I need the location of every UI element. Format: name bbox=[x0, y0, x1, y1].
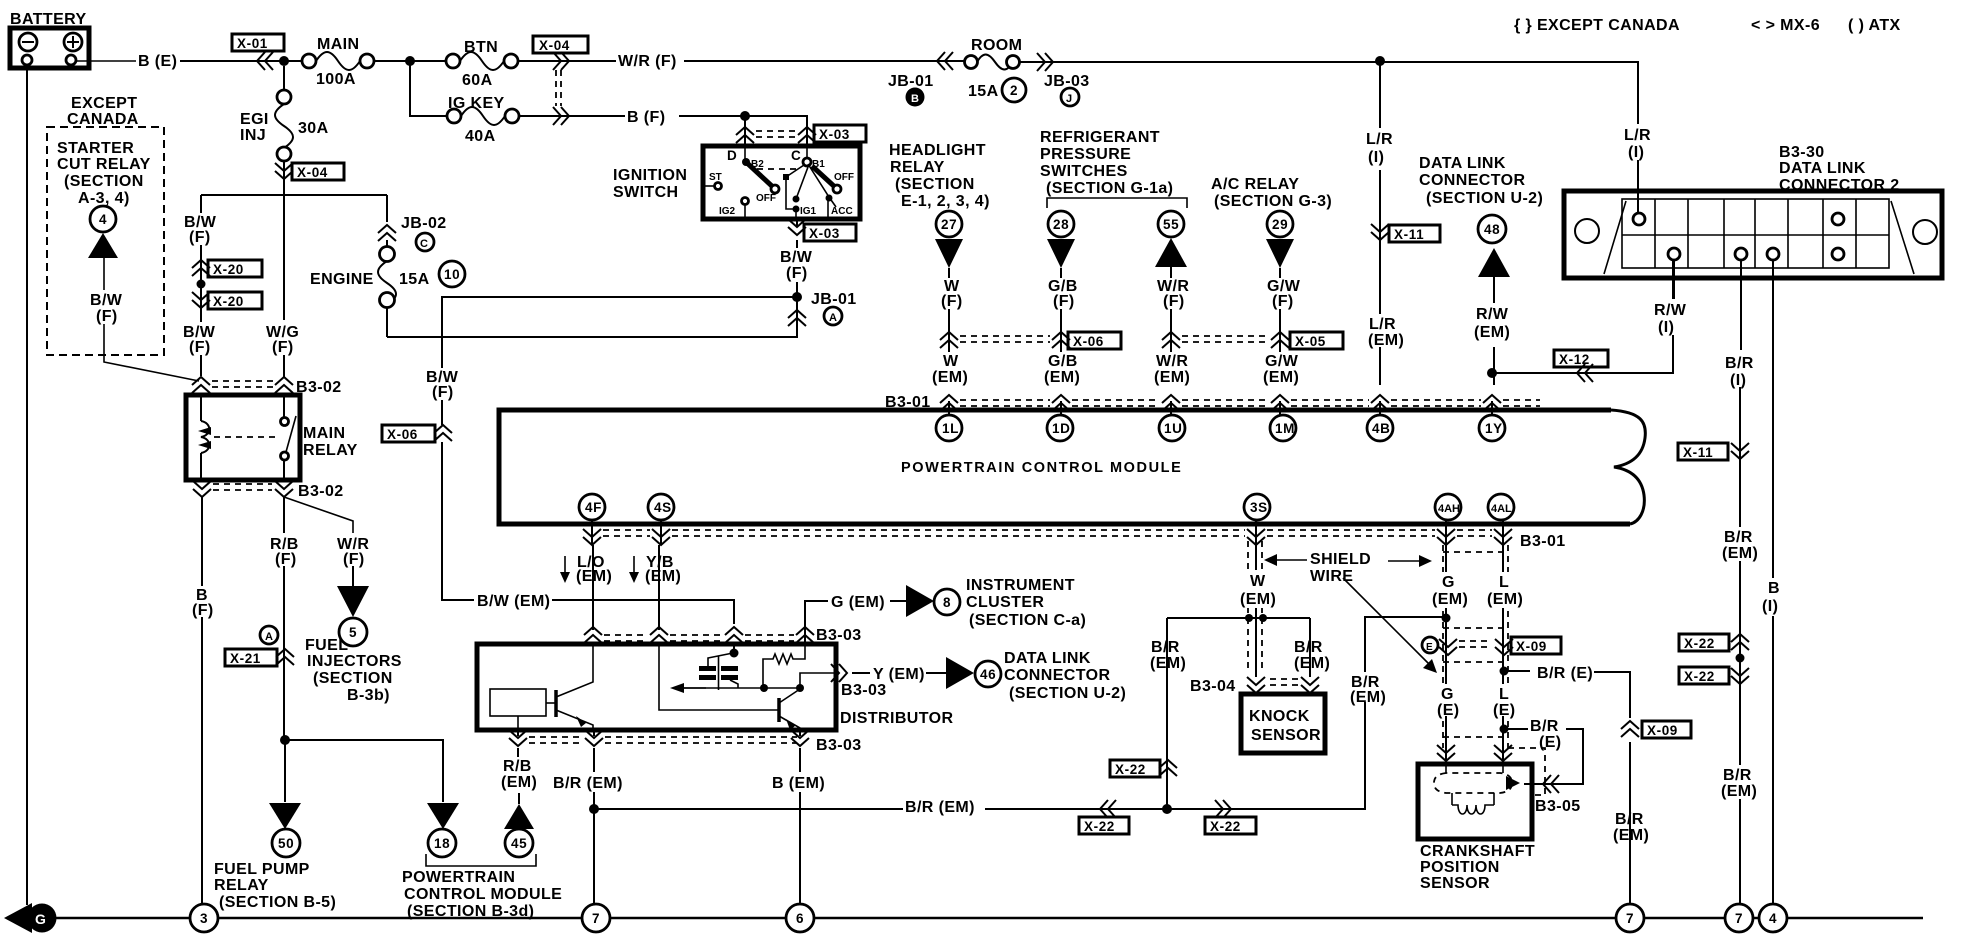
svg-text:40A: 40A bbox=[465, 128, 496, 145]
svg-text:ST: ST bbox=[709, 172, 722, 183]
svg-text:28: 28 bbox=[1053, 217, 1069, 232]
svg-text:(SECTION: (SECTION bbox=[64, 173, 144, 190]
svg-text:INSTRUMENT: INSTRUMENT bbox=[966, 577, 1075, 594]
svg-text:6: 6 bbox=[796, 911, 804, 926]
wire JB-01 left to B/W column bbox=[442, 297, 797, 425]
connector X-09 right bbox=[1621, 721, 1691, 738]
svg-text:B3-01: B3-01 bbox=[1520, 533, 1566, 550]
svg-text:(EM): (EM) bbox=[1240, 591, 1276, 608]
wire battery negative down bbox=[26, 68, 28, 905]
svg-text:B (F): B (F) bbox=[627, 109, 665, 126]
svg-text:(EM): (EM) bbox=[1432, 591, 1468, 608]
annotation arrow L/O bbox=[564, 556, 566, 578]
svg-text:B/W: B/W bbox=[780, 249, 813, 266]
svg-text:G/B: G/B bbox=[1048, 353, 1078, 370]
fuse MAIN 100A bbox=[302, 36, 374, 88]
wire pins into PCM top bbox=[949, 401, 1492, 415]
svg-text:JB-01: JB-01 bbox=[888, 73, 934, 90]
pin 4S bbox=[648, 494, 674, 520]
connector B3-03 top bus bbox=[584, 627, 862, 644]
svg-text:(I): (I) bbox=[1762, 598, 1778, 615]
wire 4S to distributor bbox=[658, 545, 660, 630]
fuse IG KEY 40A bbox=[447, 95, 519, 145]
svg-text:B-3b): B-3b) bbox=[347, 687, 390, 704]
svg-text:X-11: X-11 bbox=[1683, 445, 1713, 460]
svg-text:(EM): (EM) bbox=[1487, 591, 1523, 608]
svg-text:18: 18 bbox=[434, 836, 450, 851]
node B/R (EM) right low bbox=[1613, 811, 1649, 844]
label FUEL PUMP RELAY bbox=[214, 861, 336, 911]
terminal E circle bbox=[1422, 637, 1438, 653]
wire B (F) to bus bbox=[201, 617, 203, 904]
label HEADLIGHT RELAY bbox=[889, 142, 990, 210]
svg-text:(EM): (EM) bbox=[501, 774, 537, 791]
junction dots knock W bbox=[1245, 614, 1253, 622]
wire starter cut down bbox=[103, 258, 105, 290]
svg-text:(I): (I) bbox=[1730, 372, 1746, 389]
node Y (EM) bbox=[852, 672, 870, 674]
svg-text:50: 50 bbox=[278, 836, 294, 851]
connector X-06 bbox=[382, 425, 452, 442]
node L/R (I) top right bbox=[1622, 124, 1658, 161]
wire B/R (E) to right chain bbox=[1504, 671, 1630, 718]
connector X-03 bottom bbox=[788, 219, 856, 241]
svg-text:5: 5 bbox=[349, 625, 357, 640]
label CRANKSHAFT POSITION SENSOR bbox=[1420, 843, 1535, 892]
svg-text:29: 29 bbox=[1272, 217, 1288, 232]
svg-text:{ } EXCEPT CANADA: { } EXCEPT CANADA bbox=[1514, 17, 1680, 34]
svg-text:A/C RELAY: A/C RELAY bbox=[1211, 176, 1299, 193]
svg-text:CLUSTER: CLUSTER bbox=[966, 594, 1044, 611]
junction dot G wire bbox=[1442, 614, 1451, 623]
svg-text:(I): (I) bbox=[1628, 144, 1644, 161]
svg-text:(SECTION C-a): (SECTION C-a) bbox=[969, 612, 1086, 629]
wire R/B (EM) from distributor bbox=[517, 730, 519, 736]
svg-text:(EM): (EM) bbox=[1368, 332, 1404, 349]
terminal 8 bbox=[934, 589, 960, 615]
shield dashed box 3S bbox=[1248, 541, 1262, 668]
pin 4AL bbox=[1488, 494, 1514, 520]
terminal 4 bbox=[90, 206, 116, 232]
svg-text:2: 2 bbox=[1010, 83, 1018, 98]
junction dots distributor bbox=[760, 684, 768, 692]
chevron X-04 lower bbox=[553, 107, 569, 125]
svg-text:8: 8 bbox=[943, 595, 951, 610]
svg-text:X-03: X-03 bbox=[819, 127, 850, 142]
svg-text:(SECTION: (SECTION bbox=[313, 670, 393, 687]
svg-text:(SECTION U-2): (SECTION U-2) bbox=[1009, 685, 1126, 702]
connector X-05 dashed row bbox=[1162, 332, 1343, 349]
wire ignition to JB-01 bbox=[796, 219, 798, 297]
wire 3S shield W down bbox=[1255, 545, 1257, 677]
svg-text:B/W: B/W bbox=[90, 292, 123, 309]
connector B3-03 bottom bus bbox=[509, 730, 862, 754]
connector X-22 right upper bbox=[1679, 634, 1749, 651]
crankshaft sensor internals bbox=[1434, 764, 1520, 814]
DLC2 pin B bbox=[1767, 248, 1779, 260]
fuse ENGINE 15A bbox=[310, 240, 465, 337]
svg-text:B3-04: B3-04 bbox=[1190, 678, 1236, 695]
svg-text:W: W bbox=[943, 353, 959, 370]
svg-text:(E): (E) bbox=[1539, 734, 1562, 751]
svg-text:INJ: INJ bbox=[240, 127, 266, 144]
wire 4F to distributor bbox=[592, 545, 594, 630]
pin 1L bbox=[936, 415, 962, 441]
wire W/G column bbox=[283, 188, 285, 320]
svg-text:X-22: X-22 bbox=[1684, 669, 1715, 684]
svg-text:X-09: X-09 bbox=[1516, 639, 1547, 654]
wire R/W (I) pin bbox=[1673, 260, 1675, 299]
svg-text:B: B bbox=[1768, 580, 1780, 597]
connector X-11 top bbox=[1371, 224, 1440, 242]
connector X-22 right lower bbox=[1679, 667, 1749, 684]
wire G/W column bbox=[1279, 268, 1281, 385]
svg-text:4: 4 bbox=[99, 212, 107, 227]
wire knock right branch bbox=[1309, 618, 1311, 677]
svg-text:B/R: B/R bbox=[1530, 718, 1559, 735]
svg-text:X-22: X-22 bbox=[1210, 819, 1241, 834]
svg-text:CANADA: CANADA bbox=[67, 111, 139, 128]
svg-text:(I): (I) bbox=[1658, 319, 1674, 336]
junction dot bbox=[279, 56, 289, 66]
svg-text:(EM): (EM) bbox=[1294, 655, 1330, 672]
connector X-11 right bbox=[1678, 443, 1749, 460]
connector X-06 dashed row bbox=[940, 332, 1121, 349]
DLC2 connector body bbox=[1564, 191, 1942, 278]
svg-text:X-03: X-03 bbox=[809, 226, 840, 241]
wire B/W (EM) to distributor bbox=[552, 600, 734, 624]
fuse EGI INJ 30A bbox=[240, 66, 329, 161]
svg-text:FUEL PUMP: FUEL PUMP bbox=[214, 861, 310, 878]
svg-text:B: B bbox=[911, 93, 919, 105]
knock sensor box bbox=[1241, 694, 1325, 753]
svg-text:B/R: B/R bbox=[1151, 639, 1180, 656]
distributor transistor left bbox=[556, 644, 593, 730]
svg-text:(SECTION B-5): (SECTION B-5) bbox=[219, 894, 336, 911]
junction dot B/R bbox=[589, 804, 599, 814]
arrow refrigerant sw 55 up bbox=[1155, 238, 1187, 267]
svg-text:(SECTION: (SECTION bbox=[895, 176, 975, 193]
svg-text:JB-02: JB-02 bbox=[401, 215, 447, 232]
svg-text:RELAY: RELAY bbox=[890, 159, 945, 176]
DLC2 pin R/W bbox=[1668, 248, 1680, 260]
connector X-03 top bbox=[736, 125, 866, 143]
svg-text:(EM): (EM) bbox=[1154, 369, 1190, 386]
wire B(F) to ignition switch bbox=[679, 116, 807, 146]
wire knock left branch bbox=[1166, 618, 1168, 806]
node W/R (EM) bbox=[1152, 352, 1191, 386]
svg-text:48: 48 bbox=[1484, 222, 1500, 237]
wire ROOM to right bbox=[1020, 61, 1638, 63]
connector X-04 bbox=[533, 36, 588, 106]
wire B/W (EM) down and right bbox=[442, 442, 474, 600]
svg-text:X-06: X-06 bbox=[1073, 334, 1104, 349]
wire to X-20 bbox=[200, 245, 202, 376]
junction dot L wire B/R(E) bbox=[1500, 667, 1509, 676]
svg-text:MAIN: MAIN bbox=[303, 425, 345, 442]
terminal 3 bbox=[190, 904, 218, 932]
svg-text:< > MX-6: < > MX-6 bbox=[1751, 17, 1820, 34]
svg-text:(F): (F) bbox=[272, 339, 294, 356]
svg-text:(SECTION G-3): (SECTION G-3) bbox=[1214, 193, 1332, 210]
junction JB-01 circle B bbox=[888, 73, 934, 107]
terminal 55 bbox=[1158, 211, 1184, 237]
node L (EM) bbox=[1487, 572, 1523, 608]
svg-text:46: 46 bbox=[980, 667, 996, 682]
connector JB-02 bbox=[378, 215, 447, 251]
pin 1U bbox=[1159, 415, 1185, 441]
main relay box bbox=[186, 395, 300, 480]
distributor pickup module bbox=[490, 689, 556, 730]
svg-text:(EM): (EM) bbox=[576, 568, 612, 585]
svg-text:JB-01: JB-01 bbox=[811, 291, 857, 308]
pin 4AH bbox=[1435, 494, 1461, 520]
svg-text:MAIN: MAIN bbox=[317, 36, 359, 53]
svg-text:B/R: B/R bbox=[1725, 355, 1754, 372]
wire ignition D branch bbox=[744, 116, 746, 146]
connector X-22 knock bbox=[1110, 760, 1177, 777]
node W/G (F) bbox=[263, 322, 305, 356]
wire EGI to X-04 bbox=[283, 161, 285, 195]
junction dot X-22 right bbox=[1736, 654, 1745, 663]
svg-text:CONNECTOR: CONNECTOR bbox=[1419, 172, 1525, 189]
svg-text:X-04: X-04 bbox=[297, 165, 328, 180]
svg-text:C: C bbox=[420, 238, 428, 250]
label SHIELD WIRE bbox=[1310, 551, 1371, 585]
terminal 27 bbox=[936, 211, 962, 237]
label DATA LINK CONNECTOR U-2 bbox=[1004, 650, 1126, 702]
svg-text:SENSOR: SENSOR bbox=[1420, 875, 1490, 892]
svg-text:BATTERY: BATTERY bbox=[10, 11, 87, 28]
svg-text:SENSOR: SENSOR bbox=[1251, 727, 1321, 744]
node B/R (EM) tall wire bbox=[1349, 672, 1386, 706]
pin 4B bbox=[1367, 415, 1393, 441]
svg-text:ENGINE: ENGINE bbox=[310, 271, 374, 288]
wire B (EM) from distributor to 6 bbox=[799, 730, 801, 904]
annotation arrow Y/B bbox=[633, 556, 635, 578]
node B/R (EM) on line bbox=[903, 796, 985, 816]
label JB-01 A bbox=[811, 291, 857, 325]
svg-text:E: E bbox=[1426, 642, 1433, 653]
wire diagonal to W/R bbox=[284, 497, 353, 533]
wire B(E) to X-01 bbox=[180, 60, 302, 62]
ground symbol G bbox=[4, 903, 57, 933]
terminal 5 bbox=[339, 618, 367, 646]
label A/C RELAY bbox=[1211, 176, 1332, 210]
arrow data link connector bbox=[946, 657, 974, 689]
terminal 7 right bbox=[1725, 904, 1753, 932]
ignition switch box bbox=[703, 146, 860, 219]
svg-text:7: 7 bbox=[1626, 911, 1634, 926]
annotation arrow shield left bbox=[1272, 559, 1307, 561]
bracket refrigerant switches bbox=[1047, 198, 1187, 208]
svg-text:100A: 100A bbox=[316, 71, 356, 88]
wire W/R to injectors bbox=[352, 566, 354, 588]
svg-text:(EM): (EM) bbox=[1613, 827, 1649, 844]
svg-text:B3-03: B3-03 bbox=[841, 682, 887, 699]
svg-text:B3-03: B3-03 bbox=[816, 737, 862, 754]
svg-text:L/R: L/R bbox=[1369, 316, 1396, 333]
distributor transistor right bbox=[659, 644, 800, 730]
svg-text:10: 10 bbox=[444, 267, 460, 282]
svg-text:EGI: EGI bbox=[240, 111, 269, 128]
fuse ROOM 15A bbox=[965, 37, 1027, 102]
svg-text:B3-03: B3-03 bbox=[816, 627, 862, 644]
terminal 46 bbox=[975, 661, 1001, 687]
node B/R (I) bbox=[1725, 355, 1754, 389]
header legend bbox=[1514, 17, 1901, 34]
svg-text:7: 7 bbox=[592, 911, 600, 926]
wire 45 to distributor bbox=[518, 748, 519, 804]
shield dashed box 4AH 4AL bbox=[1443, 545, 1545, 795]
wire top right corner down to DLC2 bbox=[1637, 61, 1639, 212]
label INSTRUMENT CLUSTER bbox=[966, 577, 1086, 629]
node L (E) bbox=[1492, 684, 1516, 719]
wire BTN to W/R bbox=[518, 60, 616, 62]
svg-text:4: 4 bbox=[1769, 911, 1777, 926]
svg-text:OFF: OFF bbox=[756, 193, 776, 204]
wire B/R (I) pin down bbox=[1740, 260, 1741, 904]
DLC2 pin L/R bbox=[1633, 213, 1645, 225]
terminal 29 bbox=[1267, 211, 1293, 237]
svg-text:X-09: X-09 bbox=[1647, 723, 1678, 738]
wire R/B (F) column bbox=[283, 496, 285, 533]
ignition switch internals bbox=[703, 146, 854, 219]
terminal 7 left bbox=[582, 904, 610, 932]
connector X-20 lower bbox=[192, 292, 262, 309]
node B (I) bbox=[1760, 578, 1787, 616]
svg-text:(F): (F) bbox=[941, 293, 963, 310]
svg-text:27: 27 bbox=[941, 217, 957, 232]
junction dot fuel pump bbox=[280, 735, 290, 745]
svg-text:RELAY: RELAY bbox=[214, 877, 269, 894]
svg-text:B3-02: B3-02 bbox=[298, 483, 344, 500]
svg-text:(F): (F) bbox=[786, 265, 808, 282]
node B (EM) bbox=[770, 772, 828, 792]
svg-text:RELAY: RELAY bbox=[303, 442, 358, 459]
svg-text:DATA LINK: DATA LINK bbox=[1779, 160, 1866, 177]
wire B/R (EM) from distributor to junction bbox=[593, 730, 595, 904]
svg-text:(EM): (EM) bbox=[645, 568, 681, 585]
chevron JB-03 bbox=[1037, 53, 1053, 71]
svg-text:B/R (EM): B/R (EM) bbox=[553, 775, 623, 792]
svg-text:W/R: W/R bbox=[1156, 353, 1188, 370]
wire Y to arrow bbox=[926, 672, 946, 674]
label POWERTRAIN CONTROL MODULE B-3d bbox=[402, 869, 562, 920]
pin 3S bbox=[1244, 494, 1270, 520]
label FUEL INJECTORS bbox=[305, 637, 402, 704]
svg-text:W: W bbox=[1250, 573, 1266, 590]
PCM box bbox=[499, 410, 1630, 524]
connector B3-02 top bbox=[192, 377, 342, 396]
svg-text:G: G bbox=[1441, 686, 1454, 703]
arrow A/C relay bbox=[1266, 239, 1294, 268]
connector X-20 upper bbox=[192, 260, 262, 277]
svg-text:X-05: X-05 bbox=[1295, 334, 1326, 349]
svg-text:C: C bbox=[791, 148, 801, 163]
wire MAIN to junction bbox=[374, 60, 447, 62]
wire battery positive to B (E) bbox=[76, 60, 136, 62]
wire B/R (E) lower loop bbox=[1504, 729, 1583, 784]
terminal 4 bottom bbox=[1759, 904, 1787, 932]
svg-text:X-22: X-22 bbox=[1115, 762, 1146, 777]
DLC2 pin B/R bbox=[1735, 248, 1747, 260]
svg-text:B3-30: B3-30 bbox=[1779, 144, 1825, 161]
svg-text:X-22: X-22 bbox=[1084, 819, 1115, 834]
svg-text:B (E): B (E) bbox=[138, 53, 177, 70]
wire IG KEY branch bbox=[410, 61, 447, 116]
wire W column bbox=[948, 268, 950, 385]
DLC2 pin bot7 bbox=[1832, 248, 1844, 260]
svg-text:(F): (F) bbox=[275, 551, 297, 568]
terminal A circle bbox=[260, 626, 278, 644]
svg-text:( ) ATX: ( ) ATX bbox=[1848, 17, 1901, 34]
svg-text:1D: 1D bbox=[1052, 421, 1070, 436]
connector Y (EM) chevron bbox=[831, 664, 847, 682]
node B/R (EM) knock right bbox=[1294, 639, 1330, 672]
svg-text:Y (EM): Y (EM) bbox=[873, 666, 925, 683]
junction dot L wire lower bbox=[1500, 725, 1509, 734]
connector X-09 row bbox=[1439, 637, 1561, 655]
svg-text:OFF: OFF bbox=[834, 172, 854, 183]
svg-text:1U: 1U bbox=[1164, 421, 1182, 436]
connector X-22 horizontal bbox=[1079, 800, 1129, 834]
terminal 28 bbox=[1048, 211, 1074, 237]
svg-text:POSITION: POSITION bbox=[1420, 859, 1500, 876]
svg-text:REFRIGERANT: REFRIGERANT bbox=[1040, 129, 1160, 146]
label B3-30 DATA LINK CONNECTOR 2 bbox=[1779, 144, 1900, 194]
starter cut relay dashed box bbox=[47, 127, 164, 355]
wire 4AL L down bbox=[1502, 545, 1504, 764]
node L/R (EM) bbox=[1362, 314, 1404, 349]
svg-text:X-21: X-21 bbox=[230, 651, 261, 666]
svg-text:INJECTORS: INJECTORS bbox=[307, 653, 402, 670]
connector B3-01 bottom bus bbox=[583, 529, 1566, 550]
node R/W (EM) bbox=[1472, 303, 1514, 347]
arrow instrument cluster bbox=[906, 585, 934, 617]
svg-text:(F): (F) bbox=[1053, 293, 1075, 310]
svg-text:(EM): (EM) bbox=[1350, 689, 1386, 706]
node R/W (I) bbox=[1651, 299, 1693, 336]
wire engine fuse top bbox=[386, 195, 388, 222]
svg-text:(EM): (EM) bbox=[1263, 369, 1299, 386]
svg-text:D: D bbox=[727, 148, 737, 163]
svg-text:SHIELD: SHIELD bbox=[1310, 551, 1371, 568]
svg-text:R/B: R/B bbox=[503, 758, 532, 775]
connector X-22 horizontal right bbox=[1205, 800, 1256, 834]
svg-text:B/R: B/R bbox=[1724, 529, 1753, 546]
svg-text:J: J bbox=[1066, 93, 1072, 105]
svg-text:X-20: X-20 bbox=[213, 294, 244, 309]
svg-text:(I): (I) bbox=[1368, 149, 1384, 166]
svg-text:1L: 1L bbox=[942, 421, 959, 436]
terminal 48 bbox=[1478, 215, 1506, 243]
svg-text:E-1, 2, 3, 4): E-1, 2, 3, 4) bbox=[901, 193, 990, 210]
node G (EM) instrument bbox=[805, 601, 828, 644]
arrow fuel injectors bbox=[337, 586, 369, 617]
svg-text:L: L bbox=[1499, 686, 1509, 703]
svg-text:FUEL: FUEL bbox=[305, 637, 348, 654]
svg-text:(F): (F) bbox=[189, 339, 211, 356]
node G (E) bbox=[1436, 684, 1460, 719]
svg-text:55: 55 bbox=[1163, 217, 1179, 232]
main relay dashed link bbox=[214, 436, 276, 438]
svg-text:15A: 15A bbox=[968, 83, 999, 100]
svg-text:IG1: IG1 bbox=[800, 206, 817, 217]
arrow refrigerant sw 28 bbox=[1047, 239, 1075, 268]
wire X-04 junction across bbox=[201, 194, 387, 196]
svg-text:(EM): (EM) bbox=[932, 369, 968, 386]
